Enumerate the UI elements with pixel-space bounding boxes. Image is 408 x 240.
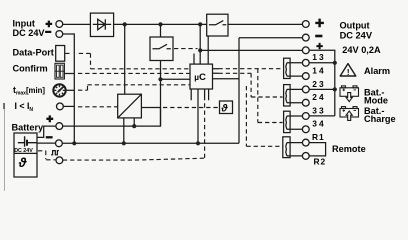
svg-text:34: 34 — [312, 119, 326, 129]
battery cell symbol — [18, 136, 37, 147]
node uc-rail junction — [196, 141, 200, 145]
svg-text:Remote: Remote — [332, 144, 366, 154]
battery charge icon — [340, 107, 359, 121]
svg-text:!: ! — [347, 68, 350, 77]
svg-text:R2: R2 — [314, 156, 327, 166]
wire B1 control dashed — [219, 68, 283, 70]
svg-text:ϑ: ϑ — [220, 103, 228, 115]
svg-text:Battery: Battery — [12, 122, 45, 132]
terminal input plus — [56, 21, 63, 28]
svg-text:Input: Input — [13, 19, 35, 29]
dashed control lines — [38, 49, 283, 161]
relay contact K4 bracket — [283, 137, 290, 158]
node 23 bridge — [333, 87, 337, 91]
wire pulse row dashed — [38, 100, 205, 160]
dcdc U2 diagonal — [118, 94, 142, 118]
diode D1 symbol — [93, 19, 111, 30]
dcdc U2 box — [118, 94, 142, 118]
switch S2 box — [207, 14, 228, 36]
node bus-rail junction — [72, 141, 76, 145]
node sw1-ucC junction — [158, 77, 162, 81]
wire remote jumper R1-R2 — [309, 143, 325, 156]
node rail-dcdc junction — [123, 22, 127, 26]
svg-text:23: 23 — [312, 79, 326, 89]
wire top rail — [63, 23, 303, 25]
wire battery minus rail — [37, 142, 239, 144]
wire B2 control dashed — [219, 73, 283, 97]
confirm icon — [55, 63, 64, 79]
microcontroller U1 box — [190, 64, 213, 89]
relay contact K1 bracket — [284, 58, 291, 78]
wire battery plus row — [63, 108, 161, 127]
label input minus sign — [45, 31, 51, 33]
terminal 23 — [302, 86, 309, 93]
node uc plus24 junction — [198, 48, 202, 52]
wire confirm to bus — [64, 73, 74, 75]
svg-text:14: 14 — [312, 66, 326, 76]
wire vertical 239 — [238, 38, 240, 144]
terminal R2 — [302, 153, 309, 160]
relay contact K3 bracket — [284, 111, 291, 132]
wire sw1 control dashed — [174, 48, 198, 50]
svg-text:Mode: Mode — [364, 95, 388, 105]
terminal 14 — [302, 73, 309, 80]
svg-text:24: 24 — [312, 92, 326, 102]
svg-text:24V 0,2A: 24V 0,2A — [342, 45, 381, 55]
wire B3 control dashed — [258, 69, 283, 123]
uc left pin row C solid — [161, 78, 191, 80]
battery box divider — [14, 152, 37, 154]
battery module box — [14, 133, 37, 177]
alarm triangle — [340, 64, 356, 76]
switch S1 symbol — [153, 44, 171, 49]
terminal I less In — [57, 103, 64, 110]
battery mode icon — [340, 86, 359, 102]
wire B4 control dashed — [246, 86, 282, 146]
terminal 24 — [302, 99, 309, 106]
dcdc U2 bottom pin B — [133, 118, 135, 126]
wire minus output row — [239, 37, 302, 39]
svg-text:Alarm: Alarm — [364, 66, 390, 76]
wire tmax to bus — [66, 89, 75, 91]
svg-text:µC: µC — [194, 72, 206, 83]
wire data-port dashed — [65, 53, 190, 68]
svg-text:Charge: Charge — [364, 114, 396, 124]
relay contact K2 bracket — [284, 85, 291, 106]
wire confirm dashed — [78, 72, 190, 74]
diode D1 box — [90, 13, 113, 36]
wire theta row dashed — [163, 107, 220, 109]
svg-text:DC 24V: DC 24V — [340, 30, 373, 40]
squarewave glyph — [51, 151, 59, 155]
wire input minus to bus — [63, 34, 75, 143]
wire uc top pin1 stub — [193, 54, 195, 65]
wire battery plus left loop — [37, 126, 56, 137]
svg-text:33: 33 — [312, 105, 326, 115]
node rail-sw1 junction — [158, 22, 162, 26]
node dcdc pinB junction — [132, 124, 136, 128]
thermometer box theta — [220, 101, 233, 114]
node dcdcA-rail junction — [122, 141, 126, 145]
svg-text:Output: Output — [340, 21, 370, 31]
wire plus24V row — [200, 50, 335, 116]
uc long bottom pin — [197, 89, 199, 143]
label out plus sign — [315, 19, 324, 28]
terminal 34 — [302, 126, 309, 133]
wire sw1 feed vertical — [160, 24, 162, 126]
potentiometer tmax dial — [53, 84, 65, 96]
svg-text:DC 24V: DC 24V — [13, 28, 46, 38]
label battery plus sign — [46, 115, 53, 122]
data-port icon — [56, 46, 65, 62]
terminal 13 — [302, 59, 309, 66]
node rail-uc junction — [198, 22, 202, 26]
terminal battery minus — [56, 140, 63, 147]
terminal pulse output — [56, 157, 63, 164]
label 24V plus sign — [316, 43, 322, 49]
label out minus sign — [315, 35, 322, 38]
uc bottom pin stubs — [191, 89, 208, 100]
label battery minus sign — [46, 136, 53, 138]
uc right pin row C solid — [213, 78, 240, 80]
svg-text:DC 24V: DC 24V — [14, 148, 33, 154]
svg-text:R1: R1 — [312, 132, 325, 142]
wire 13-23-33 bridge — [309, 63, 335, 116]
svg-text:ϑ: ϑ — [18, 155, 27, 170]
dcdc U2 right pin — [141, 107, 160, 109]
faint page crop line — [4, 103, 6, 191]
switch S1 box — [150, 37, 173, 61]
wire sw2 bottom pin to uc — [207, 36, 209, 64]
wire IlessIn dashed — [78, 106, 118, 108]
node 13 bridge — [333, 61, 337, 65]
terminal battery plus — [56, 123, 63, 130]
uc right pin stubs — [213, 69, 219, 74]
dcdc U2 top pin — [124, 24, 126, 94]
terminal 33 — [302, 113, 309, 120]
terminal R1 — [302, 139, 309, 146]
svg-text:Data-Port: Data-Port — [13, 48, 54, 58]
terminal 24V02A — [302, 47, 309, 54]
terminal out plus — [302, 21, 309, 28]
label input plus sign — [46, 21, 53, 28]
svg-text:Confirm: Confirm — [13, 63, 48, 73]
dcdc U2 bottom pin A — [123, 118, 125, 143]
wire uc top feed — [199, 24, 201, 64]
switch S2 symbol — [209, 21, 226, 25]
svg-text:13: 13 — [312, 52, 326, 62]
wire I less In to bus — [63, 105, 74, 107]
terminal out minus — [302, 34, 309, 41]
terminal input minus — [56, 31, 63, 38]
wire tmax dashed step — [78, 85, 190, 90]
